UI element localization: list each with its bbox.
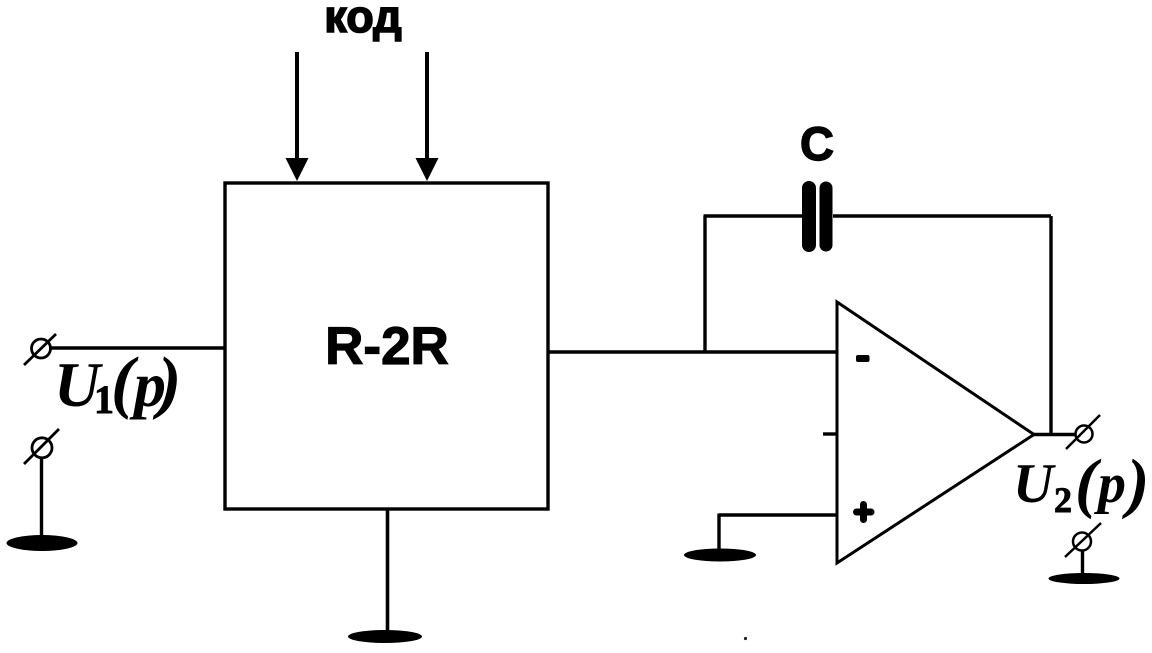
lower right terminal: [1065, 523, 1101, 557]
wire: feedback right vertical: [1049, 216, 1052, 434]
wire: op-amp output: [1034, 433, 1075, 436]
ground symbol below R-2R: [348, 630, 422, 643]
svg-text:U: U: [1013, 453, 1056, 515]
svg-text:2: 2: [1054, 480, 1072, 520]
code bus arrow 2: [416, 52, 439, 181]
output terminal: [1066, 415, 1100, 449]
svg-text:R-2R: R-2R: [325, 317, 449, 376]
ground symbol op-amp: [684, 549, 756, 562]
code bus arrow 1: [286, 52, 309, 181]
wire: lower right terminal to ground: [1081, 550, 1084, 574]
svg-text:код: код: [324, 0, 401, 42]
wire: feedback left vertical: [703, 216, 706, 352]
R-2R DAC block: [225, 183, 548, 509]
ground symbol left: [7, 535, 78, 551]
wire: feedback top left horizontal: [704, 214, 803, 217]
capacitor C: [809, 188, 826, 245]
label U2(p): [1013, 446, 1149, 520]
label U1(p): [54, 344, 181, 422]
wire: R-2R bottom to ground: [386, 509, 390, 631]
svg-text:p: p: [1094, 453, 1126, 515]
ground symbol right: [1049, 573, 1120, 584]
op-amp: [823, 302, 1034, 563]
wire: left terminal to ground: [40, 457, 43, 537]
svg-text:): ): [1122, 446, 1149, 520]
wire: R-2R output to op-amp inverting input: [548, 350, 837, 353]
input terminal: [24, 334, 56, 365]
ground terminal left: [24, 429, 59, 464]
wire: feedback top right horizontal: [833, 214, 1051, 217]
svg-text:C: C: [800, 117, 834, 170]
wire: non-inverting input: [719, 514, 837, 551]
wire: input terminal to R-2R: [49, 346, 225, 349]
